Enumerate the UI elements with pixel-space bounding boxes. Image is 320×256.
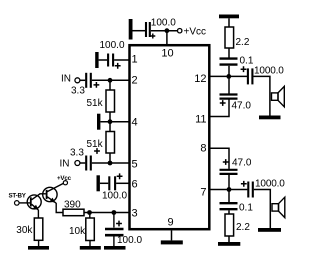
IC U1 body <box>130 45 210 229</box>
wire node to C6 <box>113 213 115 228</box>
capacitor C9 1000.0 (output top) <box>241 65 285 84</box>
svg-text:3.3: 3.3 <box>71 86 85 97</box>
node pin4 junction <box>108 119 113 124</box>
wire Q2 emitter down to 390 <box>56 203 63 213</box>
wire C8 to pin 11 <box>210 99 229 117</box>
wire Q1 emitter to R4 <box>37 210 39 218</box>
pin 1 label <box>132 53 138 65</box>
capacitor C1 100.0 (supply bypass) <box>146 18 176 39</box>
capacitor C6 100.0 (pin3 ripple) <box>105 221 142 246</box>
capacitor C12 1000.0 (output bottom) <box>241 178 285 197</box>
svg-text:1000.0: 1000.0 <box>254 65 284 76</box>
svg-text:0.1: 0.1 <box>239 203 253 214</box>
capacitor C10 0.1 (bottom) <box>220 203 254 214</box>
svg-text:8: 8 <box>200 143 206 155</box>
wire C2 to pin 1 <box>114 59 129 61</box>
pin 9 label <box>168 217 174 229</box>
wire R2 to pin5 node <box>109 153 111 163</box>
ground G2 (pin1 cap) <box>95 52 98 68</box>
resistor R5 10k <box>69 218 94 241</box>
svg-text:51k: 51k <box>87 98 104 109</box>
ground G8 (pin 9) <box>161 240 183 244</box>
resistor R3 390 <box>63 199 84 215</box>
terminal ST-BY <box>9 193 27 206</box>
wire G2 to C2 <box>99 59 108 61</box>
resistor R7 2.2 <box>225 214 250 236</box>
svg-text:390: 390 <box>64 199 81 210</box>
ground G11 (SP2) <box>258 228 281 232</box>
node pin12 junction <box>226 74 231 79</box>
wire C11 to pin7 node <box>228 174 230 190</box>
svg-text:51k: 51k <box>87 139 104 150</box>
svg-text:4: 4 <box>132 116 138 128</box>
wire R5 to ground <box>89 241 91 247</box>
pin 11 label <box>195 114 206 126</box>
pin 6 label <box>132 178 138 190</box>
terminal IN2 <box>60 158 80 169</box>
svg-text:3: 3 <box>132 208 138 220</box>
speaker SP1 <box>272 86 285 106</box>
svg-text:2.2: 2.2 <box>236 222 250 233</box>
svg-text:IN: IN <box>60 158 70 169</box>
wire C6 to ground <box>113 237 115 247</box>
wire C10 to R7 <box>228 210 230 214</box>
wire G9 to R6 <box>228 18 230 27</box>
ground G4 (pin6 cap) <box>97 175 100 191</box>
terminal +Vcc <box>178 26 207 37</box>
ground G10 (SP1) <box>259 116 281 120</box>
capacitor C8 47.0 (bootstrap top) <box>220 95 252 112</box>
svg-text:1: 1 <box>132 53 138 65</box>
svg-text:3.3: 3.3 <box>70 148 84 159</box>
svg-text:47.0: 47.0 <box>232 101 252 112</box>
wire node to R1 <box>109 80 111 90</box>
capacitor C11 47.0 (bootstrap bottom) <box>220 158 252 174</box>
capacitor C5 100.0 (pin6) <box>102 173 127 201</box>
resistor R6 2.2 <box>225 27 250 48</box>
pin 3 label <box>132 208 138 220</box>
node R5 junction <box>87 210 92 215</box>
svg-text:100.0: 100.0 <box>117 235 142 246</box>
wire node to C8 <box>228 76 230 94</box>
node C6 junction <box>112 210 117 215</box>
svg-text:+Vcc: +Vcc <box>184 26 207 37</box>
svg-text:30k: 30k <box>16 225 33 236</box>
svg-text:10k: 10k <box>69 226 86 237</box>
svg-text:100.0: 100.0 <box>102 190 127 201</box>
svg-text:100.0: 100.0 <box>151 18 176 29</box>
wire C3 to pin 2 <box>92 79 129 81</box>
wire node to R5 <box>89 213 91 219</box>
node pin5 junction <box>108 161 113 166</box>
ground G12 (R7) <box>218 242 240 246</box>
svg-text:2: 2 <box>132 74 138 86</box>
wire R7 to ground <box>228 236 230 242</box>
wire R6 to C7 <box>228 48 230 58</box>
wire R3 to pin 3 <box>84 212 129 214</box>
terminal +Vcc (standby) <box>57 175 72 185</box>
ground G9 (top right) <box>219 15 239 19</box>
node pin7 junction <box>227 187 232 192</box>
ground G1 (top supply) <box>129 19 133 40</box>
svg-text:9: 9 <box>168 217 174 229</box>
wire ST-BY to Q1 base <box>19 202 30 204</box>
svg-text:5: 5 <box>132 158 138 170</box>
svg-text:0.1: 0.1 <box>240 56 254 67</box>
resistor R1 51k <box>87 90 115 112</box>
svg-text:7: 7 <box>200 187 206 199</box>
wire C4 to pin 5 <box>92 162 129 164</box>
svg-text:11: 11 <box>195 114 206 126</box>
wire C5 to pin 6 <box>116 182 129 184</box>
wire G3 to pin 4 <box>100 121 129 123</box>
svg-text:ST-BY: ST-BY <box>9 193 27 200</box>
capacitor C4 3.3 (input) <box>70 148 100 171</box>
pin 4 label <box>132 116 138 128</box>
svg-text:100.0: 100.0 <box>100 40 125 51</box>
wire G4 to C5 <box>100 182 108 184</box>
wire pin 12 <box>209 75 247 77</box>
pin 10 label <box>161 48 173 60</box>
capacitor C2 100.0 (pin1) <box>100 40 125 69</box>
wire IN2 to C4 <box>80 162 85 164</box>
wire pin 9 to ground <box>171 231 173 241</box>
node supply junction <box>165 28 170 33</box>
svg-text:6: 6 <box>132 178 138 190</box>
svg-text:10: 10 <box>161 48 173 60</box>
transistor Q1 <box>27 194 41 210</box>
wire Q1 collector to Q2 base <box>40 193 46 195</box>
ground G7 (C6) <box>104 246 126 250</box>
pin 5 label <box>132 158 138 170</box>
ground G6 (10k) <box>80 246 101 250</box>
wire IN1 to C3 <box>80 79 85 81</box>
pin 2 label <box>132 74 138 86</box>
pin 7 label <box>200 187 206 199</box>
capacitor C3 3.3 (input) <box>71 73 99 97</box>
wire node to R2 <box>109 122 111 132</box>
wire node to C10 <box>228 190 230 203</box>
transistor Q2 <box>43 183 64 203</box>
node pin2 junction <box>108 78 113 83</box>
pin 12 label <box>194 73 206 85</box>
wire R4 to ground <box>38 240 40 246</box>
ground G3 (pin 4) <box>97 114 100 130</box>
wire pin 8 to C11 <box>209 148 229 169</box>
wire C9 to speaker SP1 <box>253 76 270 115</box>
resistor R2 51k <box>87 132 115 154</box>
wire R1 to pin4 node <box>109 112 111 122</box>
wire G1 to C1 <box>133 30 146 32</box>
svg-text:12: 12 <box>194 73 206 85</box>
wire node to pin 10 <box>166 31 168 45</box>
wire C1 to +Vcc terminal <box>151 30 178 32</box>
svg-text:IN: IN <box>61 74 71 85</box>
resistor R4 30k <box>16 218 43 240</box>
svg-text:47.0: 47.0 <box>232 158 252 169</box>
wire C12 to speaker SP2 <box>254 190 270 229</box>
svg-text:2.2: 2.2 <box>236 37 250 48</box>
svg-text:1000.0: 1000.0 <box>255 178 285 189</box>
capacitor C7 0.1 <box>220 56 254 67</box>
speaker SP2 <box>272 197 285 217</box>
terminal IN1 <box>61 74 80 85</box>
ground G5 (30k) <box>28 246 49 250</box>
wire pin 7 <box>209 189 247 191</box>
wire C7 to pin12 node <box>228 66 230 77</box>
pin 8 label <box>200 143 206 155</box>
